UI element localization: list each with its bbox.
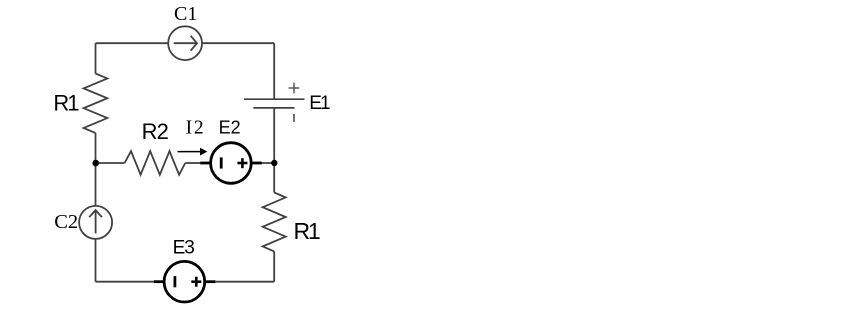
svg-text:R1: R1 [294, 218, 320, 244]
svg-text:E1: E1 [309, 93, 330, 114]
svg-text:R2: R2 [142, 119, 169, 144]
svg-text:C1: C1 [174, 3, 197, 25]
svg-text:E2: E2 [219, 117, 241, 137]
svg-text:E3: E3 [173, 238, 195, 259]
svg-text:R1: R1 [53, 90, 79, 115]
svg-text:C2: C2 [54, 211, 78, 233]
svg-text:I2: I2 [186, 118, 206, 139]
